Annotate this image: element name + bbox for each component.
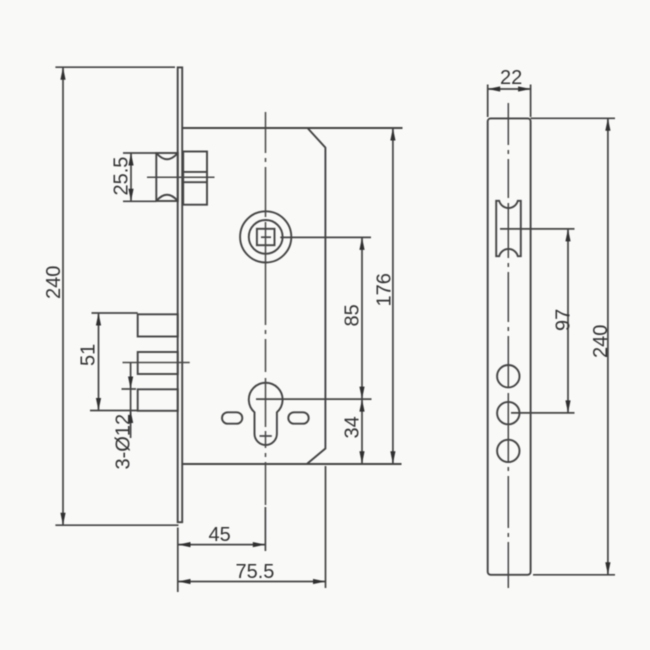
svg-text:45: 45 <box>209 524 231 546</box>
latch housing inner line lower <box>183 181 207 183</box>
dimension 240 (right view): extension top <box>531 117 615 119</box>
lock body outline: chamfer top-right, right edge, chamfer bottom-right <box>307 128 326 464</box>
extension line hub centre (to 85 dim) <box>280 236 371 238</box>
circle 2 centre extension (to 97 dim) <box>511 412 575 414</box>
dimension 75.5: extension right (body edge) <box>325 466 327 588</box>
dimension 34 line + arrows <box>361 399 363 464</box>
knob hub outer circle <box>240 211 291 262</box>
keyhole bottom cross tick <box>260 435 272 437</box>
dimension 75.5 line + arrows <box>178 581 326 583</box>
svg-text:51: 51 <box>78 344 100 366</box>
dimension 3-O12 (pin diameter), outside arrows <box>122 388 137 390</box>
svg-text:3-Ø12: 3-Ø12 <box>113 414 135 470</box>
lock body outline: bottom edge + extension to 176 dim <box>182 463 401 465</box>
extension line keyhole centre (to 85/34 dims) <box>256 398 372 400</box>
screw slot oval right <box>288 412 308 423</box>
lock body outline: top edge + extension to 176 dim <box>182 127 402 129</box>
dimension 25.5 line + arrows <box>130 153 132 201</box>
extension line centre (to 45 dim) <box>264 507 266 551</box>
dimension 45 line + arrows <box>178 544 265 546</box>
dimension 85 line + arrows <box>361 237 363 399</box>
svg-text:240: 240 <box>43 266 65 299</box>
dimension 25.5 (latch height) extension top <box>123 152 156 154</box>
knob hub cross tick <box>261 236 271 238</box>
svg-text:22: 22 <box>500 67 522 89</box>
deadbolt pin 3 <box>138 389 178 411</box>
wire: bottom extension line of faceplate (to 240 dim) <box>55 524 178 526</box>
deadbolt pin 2 <box>138 352 178 374</box>
dimension 51 line + arrows <box>98 313 100 411</box>
faceplate centre line (dash-dot) <box>507 103 509 588</box>
dimension 22 line + arrows <box>488 88 531 90</box>
svg-text:176: 176 <box>374 273 396 306</box>
svg-text:97: 97 <box>553 309 575 331</box>
dimension 240 (left view height) <box>62 67 64 525</box>
screw slot oval left <box>222 412 242 423</box>
dimension 45: extension left (faceplate) <box>177 528 179 593</box>
screw hole circle 3 <box>497 440 519 462</box>
deadbolt pin 1 <box>138 314 178 336</box>
faceplate side view outline <box>488 118 531 574</box>
latch bevel arc top <box>156 153 178 159</box>
latch housing inner line upper <box>183 171 207 173</box>
latch cutout centre extension (to 97 dim) <box>500 228 575 230</box>
extension bottom <box>533 574 615 576</box>
dimension 25.5 extension bottom <box>123 200 156 202</box>
screw hole circle 1 <box>497 365 519 387</box>
euro profile keyhole <box>249 383 283 445</box>
wire: top extension line of faceplate (to 240 dim) <box>55 66 175 68</box>
latch centre line <box>147 176 215 178</box>
svg-text:240: 240 <box>590 325 612 358</box>
dimension 51 extension top <box>92 312 138 314</box>
latch bevel arc bottom <box>156 195 178 201</box>
latch cutout (spool shape) <box>496 201 521 256</box>
dimension 22: extensions above plate <box>487 85 489 118</box>
knob hub inner circle <box>249 220 283 254</box>
svg-text:85: 85 <box>342 304 364 326</box>
dimension 240 line + arrows <box>607 118 609 575</box>
latch bolt (protruding left of faceplate) <box>156 153 178 201</box>
svg-text:75.5: 75.5 <box>236 561 275 583</box>
faceplate (front view, thin vertical plate) <box>178 67 183 522</box>
svg-text:34: 34 <box>342 416 364 438</box>
deadbolt centre line through pin 2 <box>123 362 190 364</box>
dimension 176 line + arrows <box>392 128 394 464</box>
svg-text:25.5: 25.5 <box>111 157 133 196</box>
knob hub square spindle hole <box>257 229 275 245</box>
latch housing (inside body) <box>183 152 207 205</box>
dimension 51 extension bottom <box>90 410 138 412</box>
vertical centre line of lock (dash-dot) <box>265 112 267 505</box>
dimension 97 line + arrows <box>567 229 569 413</box>
screw hole circle 2 <box>497 402 519 424</box>
